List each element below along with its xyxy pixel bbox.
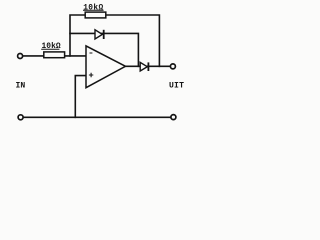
svg-text:10kΩ: 10kΩ [83,3,103,12]
svg-text:IN: IN [16,82,26,91]
svg-text:UIT: UIT [169,82,184,91]
svg-text:10kΩ: 10kΩ [42,42,61,51]
